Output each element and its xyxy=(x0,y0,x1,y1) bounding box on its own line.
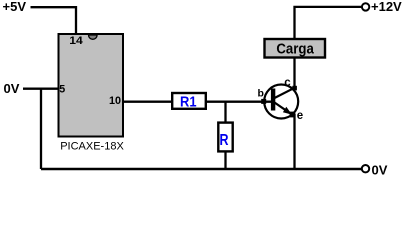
junction dot base xyxy=(261,99,266,104)
wire pin 10 to R1 xyxy=(123,101,172,103)
wire 0V to pin 5 xyxy=(23,88,59,90)
svg-text:+12V: +12V xyxy=(371,0,402,14)
junction dot collector xyxy=(292,86,297,91)
svg-text:c: c xyxy=(284,77,291,89)
svg-text:PICAXE-18X: PICAXE-18X xyxy=(60,141,124,153)
load Carga xyxy=(265,39,326,58)
svg-text:0V: 0V xyxy=(4,81,20,96)
svg-text:0V: 0V xyxy=(372,163,388,178)
transistor Q1 emitter line xyxy=(275,103,293,115)
power label +5V xyxy=(3,0,27,14)
transistor Q1 base bar xyxy=(271,89,275,111)
svg-text:R1: R1 xyxy=(180,94,197,110)
wire ground rail xyxy=(41,168,362,171)
wire R1 to base xyxy=(206,101,272,103)
power label +12V xyxy=(371,0,402,14)
pin 10 label xyxy=(109,95,121,107)
wire Carga to +12V terminal xyxy=(295,7,363,39)
IC notch xyxy=(89,35,98,39)
svg-text:R: R xyxy=(220,132,229,149)
pin 5 label xyxy=(59,84,65,96)
power label 0V left xyxy=(4,81,20,96)
svg-text:14: 14 xyxy=(69,35,83,47)
wire junction drop to R xyxy=(224,102,226,123)
transistor Q1 emitter arrow xyxy=(283,107,292,115)
transistor Q1 circle xyxy=(264,85,298,119)
terminal label c xyxy=(284,77,291,89)
junction dot emitter xyxy=(290,112,296,118)
terminal label e xyxy=(297,110,303,122)
transistor Q1 collector line xyxy=(275,88,295,98)
svg-text:10: 10 xyxy=(109,95,121,107)
terminal circle 0V right xyxy=(362,165,369,172)
resistor R1 xyxy=(172,93,206,110)
svg-text:5: 5 xyxy=(59,84,65,96)
terminal label b xyxy=(258,87,264,99)
wire +5V to pin 14 xyxy=(31,7,77,34)
power label 0V right xyxy=(372,163,388,178)
wire R to ground rail xyxy=(224,151,226,169)
pin 14 label xyxy=(69,35,83,47)
wire emitter to ground rail xyxy=(293,114,295,169)
IC value label PICAXE-18X xyxy=(60,141,124,153)
IC U1 PICAXE-18X body xyxy=(59,34,124,137)
terminal circle +12V xyxy=(362,3,369,10)
svg-text:+5V: +5V xyxy=(3,0,27,14)
svg-text:e: e xyxy=(297,110,303,122)
wire collector to Carga xyxy=(293,58,295,89)
resistor R xyxy=(218,123,232,152)
svg-text:Carga: Carga xyxy=(276,41,314,57)
svg-text:b: b xyxy=(258,87,264,99)
wire junction drop to ground rail xyxy=(40,89,42,169)
